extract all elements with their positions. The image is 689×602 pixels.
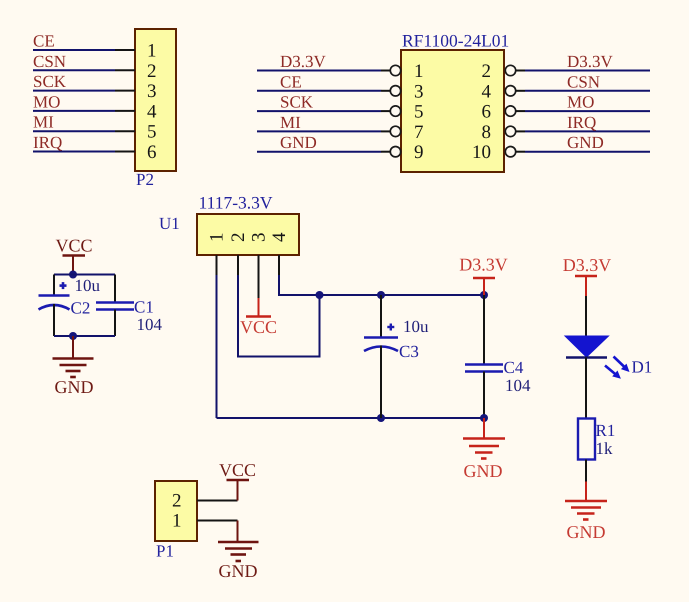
wire net SCK to RF1100 pin5 (257, 110, 390, 112)
connector P1 (155, 481, 197, 541)
net label IRQ (33, 133, 62, 152)
svg-text:1k: 1k (596, 439, 614, 458)
svg-text:IRQ: IRQ (33, 133, 62, 152)
svg-text:7: 7 (414, 122, 424, 143)
RF1100 pin 5 number (414, 102, 424, 123)
U1 pin 2 number (228, 232, 249, 242)
svg-text:10u: 10u (403, 317, 429, 336)
wire D3.3V to LED anode (585, 296, 587, 336)
svg-text:9: 9 (414, 142, 424, 163)
svg-text:VCC: VCC (240, 317, 277, 337)
capacitor C2 electrolytic symbol (39, 275, 70, 337)
svg-text:1: 1 (147, 41, 157, 62)
RF1100 pin 4 number (482, 81, 492, 102)
P1 pin 1 number (172, 511, 182, 532)
RF1100 pin 6 circle (505, 106, 515, 116)
D1 designator (632, 358, 653, 377)
svg-text:SCK: SCK (33, 72, 67, 91)
node VCC junction (top of C2/C1) (69, 271, 77, 279)
wire RF1100 pin8 to net IRQ (516, 130, 650, 132)
node junction pin2 loop on rail (316, 291, 324, 299)
wire RF1100 pin4 to net CSN (516, 90, 650, 92)
RF1100 pin 10 circle (505, 147, 515, 157)
RF1100 pin 7 circle (390, 126, 400, 136)
wire GND bottom rail (C2/C1) (54, 335, 115, 337)
svg-text:2: 2 (147, 61, 157, 82)
node junction D3.3V / C4 top (480, 291, 488, 299)
svg-text:10: 10 (472, 142, 491, 163)
svg-text:6: 6 (482, 102, 492, 123)
svg-text:R1: R1 (596, 421, 616, 440)
net label MI (33, 113, 54, 132)
net label MO (33, 92, 60, 111)
svg-text:RF1100-24L01: RF1100-24L01 (402, 31, 509, 51)
power port VCC (below U1 pin3) (240, 298, 277, 337)
net label IRQ right (567, 113, 596, 132)
net label MO right (567, 93, 594, 112)
P2 pin 2 number (147, 61, 157, 82)
capacitor C1 symbol (96, 275, 134, 337)
svg-text:5: 5 (414, 102, 424, 123)
net label CSN (33, 52, 66, 71)
P2 pin 6 number (147, 142, 157, 163)
svg-text:2: 2 (228, 232, 249, 242)
wire net MO to P2 pin4 (33, 110, 135, 112)
C3 designator (399, 342, 419, 361)
C2 designator (71, 299, 91, 318)
wire RF1100 pin2 to net D3.3V (516, 70, 650, 72)
P2 designator label (136, 170, 154, 189)
net label D3.3V right (567, 52, 614, 71)
svg-text:SCK: SCK (280, 93, 314, 112)
wire RF1100 pin6 to net MO (516, 110, 650, 112)
U1 pin 4 number (269, 232, 290, 242)
RF1100 pin 2 circle (505, 65, 515, 75)
capacitor C4 symbol (465, 295, 503, 418)
RF1100 pin 7 number (414, 122, 424, 143)
U1 designator (159, 214, 180, 233)
RF1100 pin 1 circle (390, 65, 400, 75)
svg-text:GND: GND (280, 133, 317, 152)
svg-text:D1: D1 (632, 358, 653, 377)
svg-text:MI: MI (280, 113, 301, 132)
svg-text:MO: MO (567, 93, 594, 112)
wire U1 pin1 down to GND rail (216, 275, 218, 418)
resistor R1 symbol (578, 419, 595, 460)
node junction C4 bottom (480, 414, 488, 422)
RF1100 pin 3 circle (390, 86, 400, 96)
svg-text:D3.3V: D3.3V (459, 255, 508, 275)
RF1100 pin 9 number (414, 142, 424, 163)
wire VCC top rail (54, 274, 115, 276)
wire net GND to RF1100 pin9 (257, 151, 390, 153)
net label CSN right (567, 72, 600, 91)
net label SCK module (280, 93, 314, 112)
wire net IRQ to P2 pin6 (33, 151, 135, 153)
svg-text:CSN: CSN (567, 72, 600, 91)
svg-text:VCC: VCC (219, 460, 256, 480)
svg-text:5: 5 (147, 122, 157, 143)
node junction C3 bottom (377, 414, 385, 422)
wire net CE to RF1100 pin3 (257, 90, 390, 92)
net label D3.3V left (280, 52, 327, 71)
wire net D3.3V to RF1100 pin1 (257, 70, 390, 72)
power port D3.3V (above C4) (459, 255, 508, 296)
ground GND (left, below C2) (53, 336, 94, 397)
wire P1 pin1 to GND (197, 520, 238, 522)
svg-text:IRQ: IRQ (567, 113, 596, 132)
RF1100 pin 10 number (472, 142, 491, 163)
svg-text:P2: P2 (136, 170, 154, 189)
svg-text:MO: MO (33, 92, 60, 111)
module RF1100-24L01 body (401, 50, 504, 172)
power port D3.3V (above LED D1) (563, 255, 612, 296)
svg-text:1: 1 (172, 511, 182, 532)
node GND junction (bottom of C2/C1) (69, 332, 77, 340)
U1 pin 2 stub (237, 255, 239, 275)
svg-text:D3.3V: D3.3V (563, 255, 612, 275)
wire net MI to RF1100 pin7 (257, 130, 390, 132)
wire RF1100 pin10 to net GND (516, 151, 650, 153)
C2 value 10u (75, 276, 101, 295)
U1 pin 3 number (249, 232, 270, 242)
net label GND module-left (280, 133, 317, 152)
net label CE right-module (280, 72, 302, 91)
svg-text:D3.3V: D3.3V (280, 52, 327, 71)
svg-text:C3: C3 (399, 342, 419, 361)
svg-text:CE: CE (280, 72, 302, 91)
svg-text:2: 2 (172, 491, 182, 512)
svg-text:CSN: CSN (33, 52, 66, 71)
ground GND (below R1) (565, 482, 607, 543)
R1 designator (596, 421, 616, 440)
wire LED cathode to R1 (585, 358, 587, 419)
svg-text:MI: MI (33, 113, 54, 132)
C1 designator (134, 298, 154, 317)
svg-text:1: 1 (414, 61, 424, 82)
svg-text:U1: U1 (159, 214, 180, 233)
svg-text:C4: C4 (504, 358, 524, 377)
svg-text:GND: GND (55, 377, 94, 397)
C1 value 104 (137, 315, 163, 334)
svg-text:P1: P1 (156, 542, 174, 561)
RF1100 pin 3 number (414, 81, 424, 102)
connector P2 (135, 29, 176, 171)
U1 pin 1 stub (216, 255, 218, 275)
wire U1 pin3 stub (258, 255, 260, 298)
svg-text:10u: 10u (75, 276, 101, 295)
U1 pin 4 stub (278, 255, 280, 275)
capacitor C3 electrolytic symbol (364, 295, 398, 418)
svg-text:3: 3 (147, 81, 157, 102)
svg-text:2: 2 (482, 61, 492, 82)
wire net SCK to P2 pin3 (33, 90, 135, 92)
wire net MI to P2 pin5 (33, 130, 135, 132)
svg-text:GND: GND (464, 461, 503, 481)
node junction C3 top (377, 291, 385, 299)
C3 value 10u (403, 317, 429, 336)
ground GND (below C4) (463, 418, 505, 481)
C4 designator (504, 358, 524, 377)
svg-text:3: 3 (414, 81, 424, 102)
RF1100 pin 6 number (482, 102, 492, 123)
C4 value 104 (505, 376, 531, 395)
P2 pin 3 number (147, 81, 157, 102)
svg-text:VCC: VCC (55, 236, 92, 256)
wire P1 pin2 to VCC (197, 500, 238, 502)
RF1100 pin 9 circle (390, 147, 400, 157)
svg-text:CE: CE (33, 32, 55, 51)
svg-text:1: 1 (207, 232, 228, 242)
wire U1 pin4 to output rail (279, 275, 484, 295)
P1 pin 2 number (172, 491, 182, 512)
P1 designator (156, 542, 174, 561)
power port VCC (left, above C2) (55, 236, 92, 275)
svg-text:104: 104 (137, 315, 163, 334)
svg-text:4: 4 (482, 81, 492, 102)
wire net CE to P2 pin1 (33, 49, 135, 51)
regulator U1 title 1117-3.3V (199, 193, 273, 213)
RF1100 pin 5 circle (390, 106, 400, 116)
RF1100 pin 4 circle (505, 86, 515, 96)
wire R1 to GND (585, 460, 587, 482)
svg-text:8: 8 (482, 122, 492, 143)
net label GND right (567, 133, 604, 152)
net label SCK (33, 72, 67, 91)
svg-text:4: 4 (269, 232, 290, 242)
wire net CSN to P2 pin2 (33, 69, 135, 71)
net label CE (33, 32, 55, 51)
svg-text:C1: C1 (134, 298, 154, 317)
RF1100 pin 8 number (482, 122, 492, 143)
LED D1 symbol (565, 336, 630, 379)
svg-text:C2: C2 (71, 299, 91, 318)
svg-text:104: 104 (505, 376, 531, 395)
svg-text:3: 3 (249, 232, 270, 242)
wire GND bottom rail (U1 section) (217, 417, 485, 419)
RF1100 pin 2 number (482, 61, 492, 82)
svg-text:GND: GND (567, 133, 604, 152)
RF1100 pin 8 circle (505, 126, 515, 136)
R1 value 1k (596, 439, 614, 458)
regulator U1 body (197, 214, 299, 255)
P2 pin 1 number (147, 41, 157, 62)
svg-text:GND: GND (567, 522, 606, 542)
P2 pin 4 number (147, 101, 157, 122)
module U RF1100-24L01 title (402, 31, 509, 51)
svg-text:D3.3V: D3.3V (567, 52, 614, 71)
power port VCC (at P1 pin2) (219, 460, 256, 501)
svg-text:4: 4 (147, 101, 157, 122)
svg-text:1117-3.3V: 1117-3.3V (199, 193, 273, 213)
ground GND (at P1 pin1) (218, 521, 259, 582)
P2 pin 5 number (147, 122, 157, 143)
net label MI module (280, 113, 301, 132)
wire U1 pin2 loop to output rail (238, 275, 320, 357)
RF1100 pin 1 number (414, 61, 424, 82)
svg-text:GND: GND (219, 561, 258, 581)
U1 pin 1 number (207, 232, 228, 242)
svg-text:6: 6 (147, 142, 157, 163)
